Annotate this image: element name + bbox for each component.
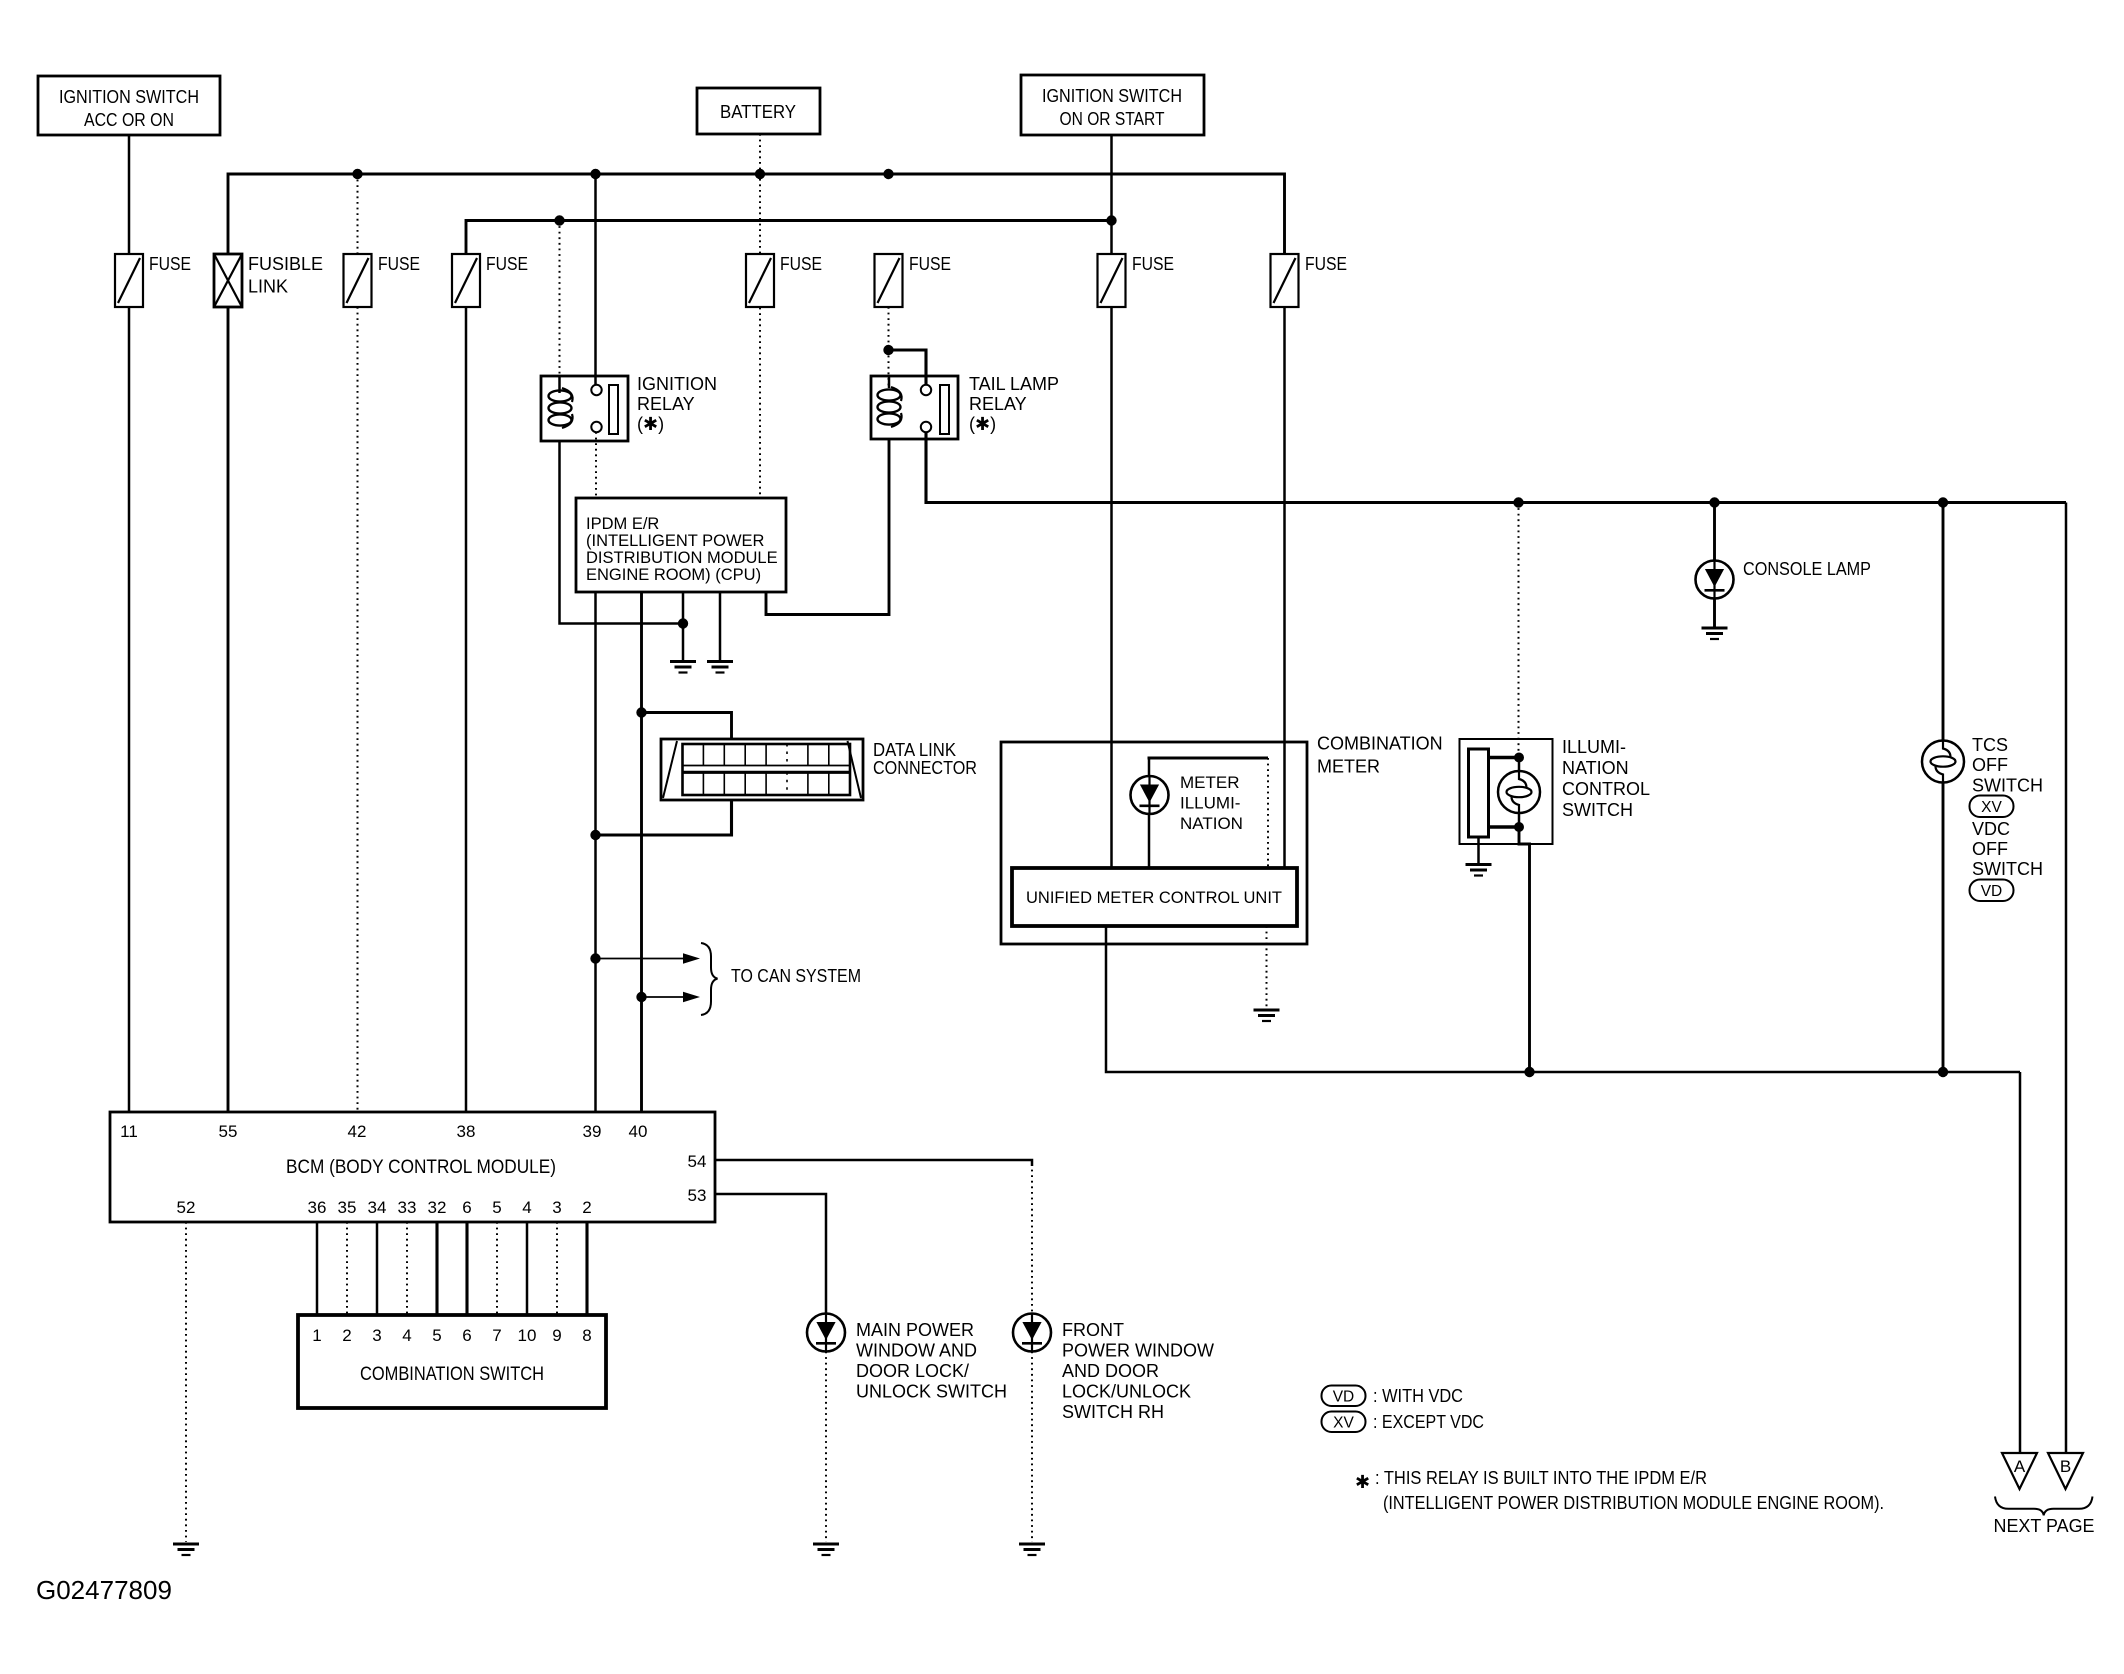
ground below front power window switch	[1019, 1544, 1045, 1555]
svg-text:(✱): (✱)	[969, 414, 996, 434]
node: CAN branch 1	[590, 953, 600, 963]
svg-text:(INTELLIGENT POWER DISTRIBUTIO: (INTELLIGENT POWER DISTRIBUTION MODULE E…	[1383, 1493, 1884, 1513]
svg-text:BATTERY: BATTERY	[720, 102, 796, 122]
fuse F4	[452, 254, 480, 307]
wire: IPDM to BCM pin 39	[594, 592, 597, 1112]
IPDM E/R box	[576, 498, 786, 592]
svg-text:✱: ✱	[1355, 1472, 1370, 1492]
svg-text:42: 42	[348, 1122, 367, 1141]
ground below illumination switch	[1466, 865, 1492, 876]
svg-text:8: 8	[582, 1326, 591, 1345]
node: tail relay feed	[883, 345, 893, 355]
wire: IPDM to BCM pin 40	[640, 592, 643, 1112]
svg-text:55: 55	[219, 1122, 238, 1141]
wire: fuse to combination meter right	[1283, 307, 1286, 868]
wire: BCM 34 to switch 3	[376, 1222, 379, 1315]
wire: fuse to combination meter	[1110, 307, 1113, 868]
wire: resistor to ground	[1477, 837, 1480, 863]
node on lamp bus: TCS switch	[1938, 497, 1948, 507]
wire: console lamp to ground	[1713, 599, 1716, 627]
wire: ignition relay contact to IPDM (dashed)	[595, 432, 597, 498]
svg-text:METER: METER	[1180, 773, 1240, 792]
main power window switch bulb	[807, 1314, 845, 1352]
svg-text:FRONT: FRONT	[1062, 1320, 1124, 1340]
wire: IPDM pin to ground leg 1	[682, 592, 685, 660]
svg-text:CONNECTOR: CONNECTOR	[873, 758, 977, 778]
svg-text:MAIN POWER: MAIN POWER	[856, 1320, 974, 1340]
wire: tail relay contact output	[926, 432, 2066, 503]
combination meter box	[1001, 734, 1443, 945]
svg-text:FUSE: FUSE	[149, 254, 191, 274]
ground below combination meter	[1254, 1010, 1280, 1021]
wire: battery feed (dashed)	[759, 134, 761, 498]
wire: bus1 to fuse 42 (dashed)	[357, 174, 359, 254]
relay note	[1355, 1468, 1884, 1513]
wire: bar right side down (dashed)	[1267, 758, 1269, 868]
fuse F1	[115, 254, 143, 307]
ground below main power window switch	[813, 1544, 839, 1555]
svg-text:52: 52	[177, 1198, 196, 1217]
svg-text:1: 1	[312, 1326, 321, 1345]
svg-text:53: 53	[688, 1186, 707, 1205]
svg-text:COMBINATION SWITCH: COMBINATION SWITCH	[360, 1364, 544, 1385]
svg-text:TAIL LAMP: TAIL LAMP	[969, 374, 1059, 394]
off-page arrow A	[2002, 1453, 2037, 1489]
svg-text:6: 6	[462, 1326, 471, 1345]
ground below console lamp	[1702, 628, 1728, 639]
wire: front switch to ground (dashed)	[1031, 1352, 1033, 1543]
node: DLC feed junction	[636, 707, 646, 717]
wire: TCS switch drop	[1942, 503, 1945, 742]
node on lamp bus: console lamp	[1709, 497, 1719, 507]
svg-text:VD: VD	[1981, 883, 2003, 900]
ignition relay U1	[541, 374, 717, 441]
ignition switch ON/START box	[1021, 75, 1204, 135]
wire: B line down right edge	[2065, 503, 2068, 1454]
fuse F7 ignition	[1098, 254, 1126, 307]
svg-text:A: A	[2014, 1457, 2026, 1476]
ignition switch ACC box	[38, 76, 220, 135]
svg-text:CONSOLE LAMP: CONSOLE LAMP	[1743, 559, 1871, 579]
wire: BCM 6 to switch 6	[465, 1222, 468, 1315]
unified meter control unit box	[1012, 868, 1297, 926]
svg-text:VD: VD	[1333, 1389, 1355, 1406]
fusible link	[214, 254, 323, 307]
node on bus1 at battery	[755, 169, 765, 179]
wire: ign ACC to fuse	[128, 135, 131, 254]
wire: fuse 42 to BCM pin 42 (dashed)	[357, 307, 359, 1112]
svg-text:XV: XV	[1981, 799, 2002, 816]
svg-text:NATION: NATION	[1562, 758, 1629, 778]
svg-text:TCS: TCS	[1972, 735, 2008, 755]
svg-text:IGNITION: IGNITION	[637, 374, 717, 394]
data link connector	[661, 739, 977, 800]
svg-text:39: 39	[583, 1122, 602, 1141]
wire: main switch to ground (dashed)	[825, 1352, 827, 1543]
svg-text:B: B	[2060, 1457, 2071, 1476]
svg-text:: EXCEPT VDC: : EXCEPT VDC	[1373, 1412, 1484, 1432]
svg-text:SWITCH RH: SWITCH RH	[1062, 1402, 1164, 1422]
node: coil return junction	[678, 618, 688, 628]
svg-text:POWER WINDOW: POWER WINDOW	[1062, 1341, 1214, 1361]
svg-text:ENGINE ROOM) (CPU): ENGINE ROOM) (CPU)	[586, 566, 761, 584]
svg-text:ACC OR ON: ACC OR ON	[84, 110, 174, 130]
node: illumination output junction	[1524, 1067, 1534, 1077]
svg-text:4: 4	[402, 1326, 411, 1345]
svg-text:ON OR START: ON OR START	[1060, 109, 1165, 129]
wire: BCM 33 to switch 4 (dashed)	[406, 1222, 408, 1315]
svg-text:G02477809: G02477809	[36, 1575, 172, 1605]
wire: console lamp drop	[1713, 503, 1716, 562]
ground below IPDM 1	[670, 662, 696, 673]
wire: BCM 3 to switch 9 (dashed)	[556, 1222, 558, 1315]
VD legend tag	[1322, 1386, 1464, 1407]
node on lamp bus: illumination switch	[1513, 497, 1523, 507]
wire: A line down	[2019, 1072, 2022, 1453]
wire: ignition ON/START down to fuse	[1110, 135, 1113, 254]
svg-text:5: 5	[492, 1198, 501, 1217]
svg-text:DOOR LOCK/: DOOR LOCK/	[856, 1361, 969, 1381]
svg-text:(INTELLIGENT POWER: (INTELLIGENT POWER	[586, 532, 765, 550]
svg-text:IGNITION SWITCH: IGNITION SWITCH	[1042, 86, 1182, 106]
node: DLC return junction	[590, 830, 600, 840]
svg-text:COMBINATION: COMBINATION	[1317, 734, 1443, 754]
svg-text:AND DOOR: AND DOOR	[1062, 1361, 1159, 1381]
svg-text:35: 35	[338, 1198, 357, 1217]
svg-text:VDC: VDC	[1972, 819, 2010, 839]
svg-text:34: 34	[368, 1198, 387, 1217]
illumination control switch	[1460, 737, 1651, 844]
svg-text:METER: METER	[1317, 757, 1380, 777]
svg-text:SWITCH: SWITCH	[1972, 776, 2043, 796]
fuse F6 tail	[875, 254, 903, 307]
svg-text:DISTRIBUTION MODULE: DISTRIBUTION MODULE	[586, 549, 778, 567]
wire: BCM 5 to switch 7 (dashed)	[496, 1222, 498, 1315]
svg-text:IPDM E/R: IPDM E/R	[586, 515, 659, 533]
fuse F3	[344, 254, 372, 307]
meter illumination bulb	[1131, 776, 1169, 814]
svg-text:38: 38	[457, 1122, 476, 1141]
svg-text:(✱): (✱)	[637, 414, 664, 434]
wire: illumination control switch drop (dashed)	[1518, 503, 1520, 758]
BCM box	[110, 1112, 715, 1222]
node on bus2 at ignition relay coil	[554, 215, 564, 225]
wire: data link connector return	[596, 800, 732, 835]
svg-text:FUSE: FUSE	[378, 254, 420, 274]
svg-text:ILLUMI-: ILLUMI-	[1562, 737, 1626, 757]
svg-text:FUSE: FUSE	[780, 254, 822, 274]
wire: BCM 54 to front power window switch	[715, 1160, 1032, 1166]
svg-text:: WITH VDC: : WITH VDC	[1373, 1386, 1463, 1406]
svg-text:FUSE: FUSE	[486, 254, 528, 274]
node: CAN branch 2	[636, 992, 646, 1002]
tail lamp relay U2	[871, 374, 1059, 439]
svg-text:FUSE: FUSE	[1132, 254, 1174, 274]
wire: meter illumination feed bar	[1148, 756, 1269, 759]
svg-text:3: 3	[372, 1326, 381, 1345]
front power window switch bulb	[1013, 1314, 1051, 1352]
svg-text:: THIS RELAY IS BUILT INTO THE: : THIS RELAY IS BUILT INTO THE IPDM E/R	[1375, 1468, 1707, 1488]
svg-text:LOCK/UNLOCK: LOCK/UNLOCK	[1062, 1382, 1191, 1402]
wire: node to tail relay coil (dashed)	[888, 350, 890, 388]
VD tag	[1970, 880, 2014, 902]
node on bus1 at ignition relay feed	[590, 169, 600, 179]
off-page arrow B	[2048, 1453, 2083, 1489]
svg-text:40: 40	[629, 1122, 648, 1141]
svg-text:OFF: OFF	[1972, 755, 2008, 775]
svg-text:36: 36	[308, 1198, 327, 1217]
node: TCS bottom junction	[1938, 1067, 1948, 1077]
next page brace	[1995, 1497, 2093, 1516]
svg-text:32: 32	[428, 1198, 447, 1217]
svg-text:11: 11	[120, 1122, 138, 1141]
wire: bulb to unified unit	[1148, 813, 1151, 868]
illumination switch bulb	[1498, 771, 1540, 813]
svg-text:33: 33	[398, 1198, 417, 1217]
svg-text:3: 3	[552, 1198, 561, 1217]
wire: junction to data link connector	[642, 713, 732, 741]
wire: bar down to bulb	[1148, 758, 1151, 777]
svg-text:TO CAN SYSTEM: TO CAN SYSTEM	[731, 966, 861, 986]
wire: BCM 4 to switch 10	[526, 1222, 529, 1315]
svg-text:ILLUMI-: ILLUMI-	[1180, 794, 1240, 813]
svg-text:FUSIBLE: FUSIBLE	[248, 254, 323, 274]
wire: fuse to tail relay node (dashed)	[888, 307, 890, 350]
wire: tail relay coil return to IPDM	[766, 439, 889, 615]
svg-text:WINDOW AND: WINDOW AND	[856, 1341, 977, 1361]
svg-text:IGNITION SWITCH: IGNITION SWITCH	[59, 87, 199, 107]
console lamp	[1696, 561, 1734, 599]
node on bus1 at fuse 42	[352, 169, 362, 179]
wire: bus1 horizontal	[228, 174, 1285, 254]
wire: BCM 36 to switch 1	[316, 1222, 319, 1315]
brace to CAN system	[701, 943, 718, 1015]
wire: BCM 53 to main power window switch	[715, 1194, 826, 1313]
wire: meter output left	[1106, 926, 2020, 1072]
wire: BCM 52 to ground (dashed)	[185, 1222, 187, 1542]
TCS off switch bulb	[1922, 741, 1964, 783]
wire: bus2 horizontal	[466, 221, 1112, 255]
svg-text:NATION: NATION	[1180, 814, 1243, 833]
wire: IPDM pin to ground leg 2	[719, 592, 722, 660]
svg-text:7: 7	[492, 1326, 501, 1345]
wire: BCM 2 to switch 8	[585, 1222, 588, 1315]
svg-text:RELAY: RELAY	[637, 394, 695, 414]
svg-text:SWITCH: SWITCH	[1972, 859, 2043, 879]
svg-text:UNLOCK SWITCH: UNLOCK SWITCH	[856, 1382, 1007, 1402]
ground below BCM 52	[173, 1544, 199, 1555]
wire: TCS switch to bottom bus	[1942, 783, 1945, 1073]
wire: fusible link to BCM pin 55	[227, 307, 230, 1112]
svg-text:OFF: OFF	[1972, 839, 2008, 859]
battery box	[697, 88, 820, 134]
svg-text:XV: XV	[1333, 1415, 1354, 1432]
svg-text:10: 10	[518, 1326, 537, 1345]
svg-text:NEXT PAGE: NEXT PAGE	[1994, 1516, 2095, 1536]
wire: fuse 38 to BCM pin 38	[465, 307, 468, 1112]
svg-text:54: 54	[688, 1152, 707, 1171]
wire: BCM 35 to switch 2 (dashed)	[346, 1222, 348, 1315]
node on bus1 at tail fuse	[883, 169, 893, 179]
svg-text:SWITCH: SWITCH	[1562, 800, 1633, 820]
wire: fuse to BCM pin 11	[128, 307, 131, 1112]
fuse F8	[1271, 254, 1299, 307]
XV tag	[1970, 796, 2014, 818]
svg-text:CONTROL: CONTROL	[1562, 779, 1650, 799]
wire: node to tail relay contact	[889, 350, 927, 385]
svg-text:5: 5	[432, 1326, 441, 1345]
wire: meter ground output (dashed)	[1266, 926, 1268, 1008]
svg-text:RELAY: RELAY	[969, 394, 1027, 414]
wire: BCM 32 to switch 5	[435, 1222, 438, 1315]
wire: CAN arrow 1	[596, 958, 686, 960]
svg-text:FUSE: FUSE	[1305, 254, 1347, 274]
wire: bus2 to ignition relay coil (dashed)	[559, 221, 561, 377]
svg-text:FUSE: FUSE	[909, 254, 951, 274]
XV legend tag	[1322, 1412, 1485, 1433]
combination switch box	[298, 1315, 606, 1408]
svg-text:DATA LINK: DATA LINK	[873, 740, 956, 760]
ground below IPDM 2	[707, 662, 733, 673]
node on bus2 at ignition switch wire	[1106, 215, 1116, 225]
svg-text:BCM (BODY CONTROL MODULE): BCM (BODY CONTROL MODULE)	[286, 1157, 556, 1178]
wire: illumination switch output	[1519, 827, 1530, 1072]
wire: ignition relay coil return	[560, 441, 684, 624]
wire: CAN arrow 2	[642, 996, 686, 998]
svg-text:4: 4	[522, 1198, 531, 1217]
wire: bus1 to ignition relay contact	[594, 174, 597, 385]
svg-text:LINK: LINK	[248, 277, 288, 297]
fuse F5 battery	[746, 254, 774, 307]
svg-text:2: 2	[582, 1198, 591, 1217]
svg-text:2: 2	[342, 1326, 351, 1345]
svg-text:UNIFIED METER CONTROL UNIT: UNIFIED METER CONTROL UNIT	[1026, 888, 1282, 907]
svg-text:9: 9	[552, 1326, 561, 1345]
svg-text:6: 6	[462, 1198, 471, 1217]
